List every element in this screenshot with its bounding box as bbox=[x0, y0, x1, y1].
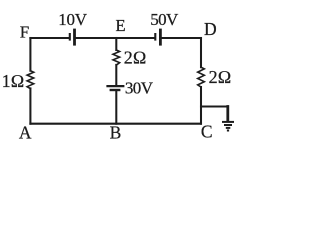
svg-text:2Ω: 2Ω bbox=[209, 67, 232, 87]
wire 10V battery to E bbox=[76, 37, 116, 39]
ground symbol bbox=[222, 122, 234, 131]
svg-text:D: D bbox=[204, 19, 217, 39]
resistor R1 1ohm zigzag bbox=[27, 71, 34, 89]
wire top-left F to 10V battery bbox=[30, 37, 68, 39]
wire left F down to resistor R1 bbox=[29, 38, 31, 71]
battery 10V plates bbox=[70, 29, 75, 46]
svg-text:30V: 30V bbox=[125, 79, 154, 98]
svg-text:B: B bbox=[110, 123, 122, 143]
wire D down to resistor R3 bbox=[200, 38, 202, 67]
wire ground stem bbox=[226, 107, 229, 121]
svg-text:1Ω: 1Ω bbox=[2, 71, 25, 91]
wire resistor R1 down to A bbox=[29, 88, 31, 123]
resistor R3 2ohm right zigzag bbox=[198, 67, 205, 87]
svg-text:2Ω: 2Ω bbox=[124, 48, 147, 68]
battery 50V plates bbox=[155, 29, 160, 46]
svg-text:C: C bbox=[201, 122, 213, 142]
svg-text:50V: 50V bbox=[150, 10, 179, 29]
svg-text:10V: 10V bbox=[58, 10, 87, 29]
wire C branch to ground bbox=[201, 105, 228, 107]
wire 50V battery to D corner bbox=[162, 37, 201, 39]
svg-text:A: A bbox=[19, 123, 32, 143]
wire E to 50V battery bbox=[116, 37, 154, 39]
battery 30V plates bbox=[106, 86, 124, 90]
wire resistor R2 to battery 30V bbox=[115, 65, 117, 85]
resistor R2 2ohm middle zigzag bbox=[113, 50, 120, 65]
svg-text:E: E bbox=[116, 16, 126, 35]
wire bottom A to B to C bbox=[30, 123, 201, 125]
svg-text:F: F bbox=[20, 22, 29, 41]
wire battery 30V down to B bbox=[115, 91, 117, 124]
wire E down to resistor R2 bbox=[115, 38, 117, 50]
wire resistor R3 down to C bbox=[200, 87, 202, 124]
